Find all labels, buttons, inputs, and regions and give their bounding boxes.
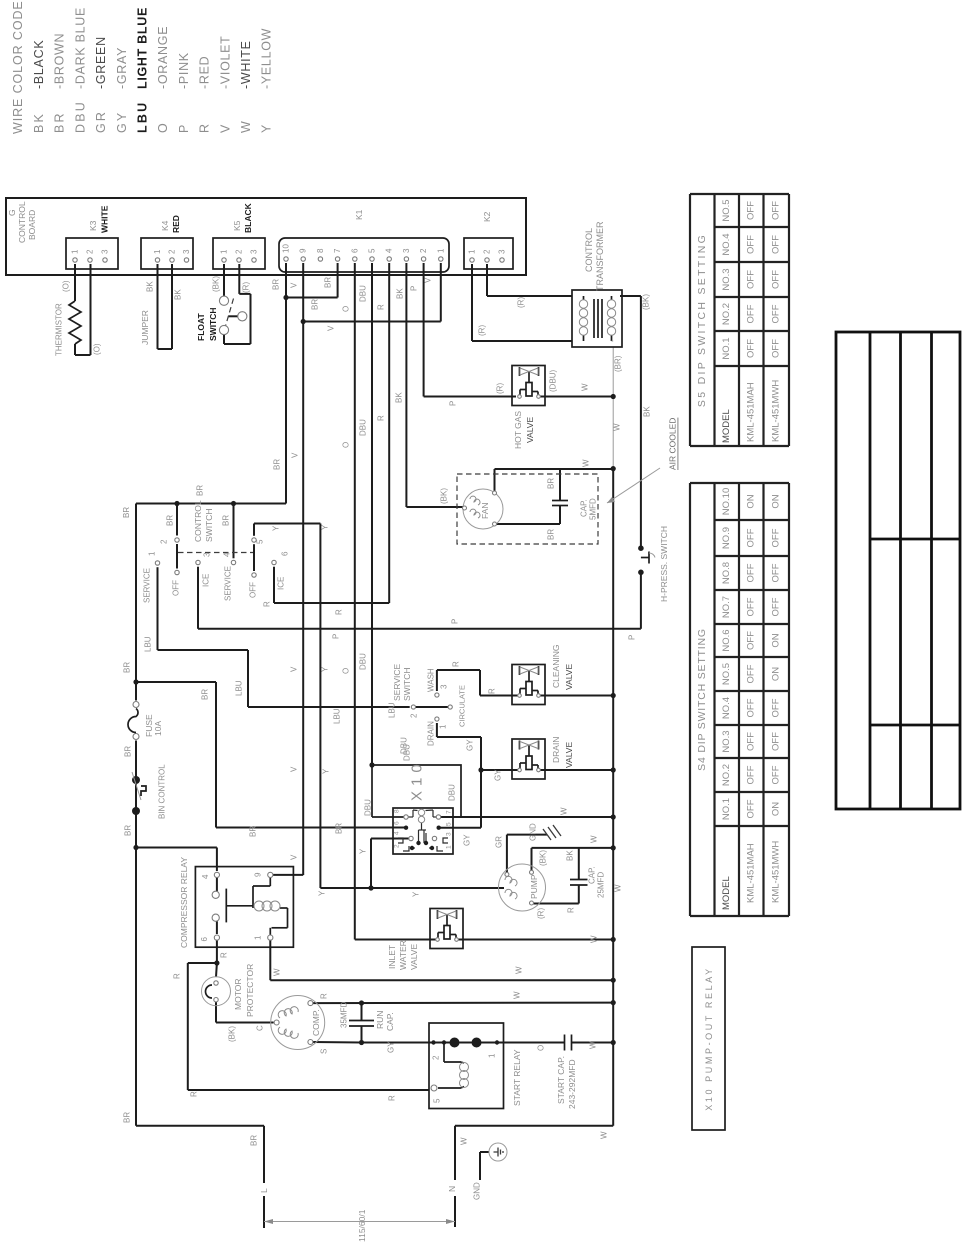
svg-text:1: 1 — [488, 1053, 497, 1058]
svg-text:5: 5 — [446, 822, 453, 826]
svg-text:Y: Y — [359, 848, 368, 854]
svg-text:PUMP: PUMP — [529, 874, 539, 899]
svg-text:SWITCH: SWITCH — [208, 307, 218, 341]
svg-text:(BK): (BK) — [440, 488, 449, 504]
svg-text:O: O — [342, 306, 351, 312]
svg-text:PROTECTOR: PROTECTOR — [245, 964, 255, 1017]
svg-text:LBU: LBU — [388, 702, 397, 718]
svg-text:V: V — [290, 854, 299, 860]
svg-text:VALVE: VALVE — [564, 742, 574, 768]
svg-text:DBU: DBU — [364, 799, 373, 816]
svg-text:-PINK: -PINK — [177, 52, 191, 89]
svg-text:BK: BK — [396, 288, 405, 299]
svg-text:3: 3 — [182, 249, 191, 254]
svg-text:OFF: OFF — [746, 597, 757, 616]
svg-text:DRAIN: DRAIN — [551, 737, 561, 763]
svg-text:BR: BR — [249, 826, 258, 837]
svg-text:5: 5 — [433, 1098, 442, 1103]
svg-text:JUMPER: JUMPER — [140, 310, 150, 345]
svg-text:Y: Y — [322, 768, 331, 774]
svg-text:VALVE: VALVE — [564, 664, 574, 690]
svg-text:O: O — [537, 1045, 546, 1051]
svg-text:K4: K4 — [160, 220, 170, 231]
svg-text:6: 6 — [200, 937, 209, 942]
svg-text:S4 DIP SWITCH SETTING: S4 DIP SWITCH SETTING — [696, 628, 708, 771]
svg-text:OFF: OFF — [172, 580, 181, 596]
svg-text:6: 6 — [281, 551, 290, 556]
svg-text:W: W — [590, 835, 599, 843]
svg-text:Y: Y — [260, 122, 274, 133]
svg-text:OFF: OFF — [746, 304, 757, 323]
svg-text:NO.9: NO.9 — [721, 527, 732, 549]
svg-text:1: 1 — [71, 249, 80, 254]
svg-text:SERVICE: SERVICE — [224, 566, 233, 601]
svg-text:(R): (R) — [478, 325, 487, 336]
svg-text:R: R — [377, 415, 386, 421]
svg-text:R: R — [263, 601, 272, 607]
svg-text:115/60/1: 115/60/1 — [357, 1209, 367, 1242]
svg-text:LIGHT BLUE: LIGHT BLUE — [136, 7, 150, 89]
svg-text:Y: Y — [272, 525, 281, 531]
svg-text:MODEL: MODEL — [721, 409, 732, 443]
svg-text:DBU: DBU — [359, 419, 368, 436]
svg-text:LBU: LBU — [136, 101, 150, 133]
svg-text:OFF: OFF — [746, 631, 757, 650]
svg-text:R: R — [190, 1091, 199, 1097]
svg-text:FAN: FAN — [480, 502, 490, 519]
svg-text:START CAP.: START CAP. — [556, 1056, 566, 1104]
svg-text:(R): (R) — [517, 297, 526, 308]
svg-text:BIN CONTROL: BIN CONTROL — [158, 764, 167, 819]
svg-text:2: 2 — [160, 539, 169, 544]
svg-text:R: R — [198, 122, 212, 133]
svg-text:BR: BR — [123, 662, 132, 673]
svg-text:S5 DIP SWITCH SETTING: S5 DIP SWITCH SETTING — [696, 233, 708, 407]
svg-text:V: V — [218, 122, 232, 133]
svg-text:OFF: OFF — [746, 698, 757, 717]
svg-text:W: W — [239, 119, 253, 133]
svg-text:2: 2 — [410, 713, 419, 718]
svg-text:6: 6 — [350, 248, 359, 253]
svg-text:LBU: LBU — [235, 680, 244, 696]
svg-text:K1: K1 — [354, 209, 364, 220]
svg-text:NO.2: NO.2 — [721, 303, 732, 325]
svg-text:COMP.: COMP. — [311, 1009, 321, 1036]
svg-text:W: W — [600, 1131, 609, 1139]
svg-text:NO.4: NO.4 — [721, 233, 732, 255]
svg-text:OFF: OFF — [771, 765, 782, 784]
svg-text:BK: BK — [32, 112, 46, 133]
svg-text:V: V — [290, 766, 299, 772]
svg-text:ON: ON — [771, 667, 782, 681]
svg-text:2: 2 — [235, 249, 244, 254]
svg-text:BR: BR — [201, 689, 210, 700]
svg-text:-BLACK: -BLACK — [32, 40, 46, 89]
svg-text:NO.1: NO.1 — [721, 337, 732, 359]
svg-text:1: 1 — [468, 249, 477, 254]
svg-text:G: G — [7, 209, 17, 216]
svg-text:-GREEN: -GREEN — [94, 36, 108, 89]
svg-text:VALVE: VALVE — [525, 417, 535, 443]
svg-text:W: W — [590, 935, 599, 943]
svg-text:MODEL: MODEL — [721, 876, 732, 910]
svg-text:NO.5: NO.5 — [721, 199, 732, 221]
svg-text:(BK): (BK) — [642, 294, 651, 310]
svg-text:R: R — [388, 1095, 397, 1101]
svg-text:BR: BR — [547, 529, 556, 540]
svg-text:NO.1: NO.1 — [721, 798, 732, 820]
svg-text:CONTROL: CONTROL — [193, 500, 203, 542]
svg-text:BR: BR — [123, 1112, 132, 1123]
svg-text:W: W — [513, 991, 522, 999]
svg-text:NO.10: NO.10 — [721, 488, 732, 515]
svg-text:-DARK BLUE: -DARK BLUE — [73, 7, 87, 89]
svg-text:DBU: DBU — [403, 744, 412, 761]
svg-text:W: W — [582, 459, 591, 467]
svg-text:ON: ON — [771, 802, 782, 816]
svg-text:10A: 10A — [153, 721, 163, 736]
svg-text:GY: GY — [115, 111, 129, 133]
svg-text:P: P — [332, 634, 341, 639]
svg-text:OFF: OFF — [771, 597, 782, 616]
svg-text:O: O — [342, 668, 351, 674]
svg-text:BR: BR — [272, 279, 281, 290]
svg-text:BR: BR — [311, 299, 320, 310]
svg-text:BK: BK — [174, 289, 183, 300]
svg-text:W: W — [560, 807, 569, 815]
svg-text:ON: ON — [771, 633, 782, 647]
svg-text:BR: BR — [324, 277, 333, 288]
svg-text:5: 5 — [256, 539, 265, 544]
svg-text:-GRAY: -GRAY — [115, 47, 129, 89]
svg-text:(BR): (BR) — [614, 355, 623, 372]
svg-text:1: 1 — [220, 249, 229, 254]
svg-text:LBU: LBU — [333, 708, 342, 724]
svg-text:KML-451MWH: KML-451MWH — [771, 841, 782, 903]
svg-text:BOARD: BOARD — [27, 210, 37, 240]
svg-text:P: P — [628, 635, 637, 640]
svg-text:ICE: ICE — [202, 574, 211, 587]
svg-text:GY: GY — [387, 1041, 396, 1053]
svg-text:OFF: OFF — [771, 201, 782, 220]
svg-text:R: R — [320, 993, 329, 999]
svg-text:N: N — [447, 1186, 457, 1192]
svg-text:2: 2 — [483, 249, 492, 254]
svg-text:5MFD: 5MFD — [589, 498, 598, 520]
svg-text:9: 9 — [254, 872, 263, 877]
svg-text:INLET: INLET — [387, 945, 397, 969]
svg-text:GND: GND — [529, 823, 538, 841]
svg-text:Y: Y — [412, 891, 421, 897]
svg-text:CAP.: CAP. — [588, 866, 597, 884]
svg-text:(DBU): (DBU) — [549, 369, 558, 392]
svg-text:8: 8 — [316, 248, 325, 253]
svg-text:LBU: LBU — [144, 636, 153, 652]
svg-text:K3: K3 — [88, 220, 98, 231]
svg-text:P: P — [177, 122, 191, 133]
svg-text:VALVE: VALVE — [409, 944, 419, 970]
svg-text:NO.5: NO.5 — [721, 663, 732, 685]
svg-text:H-PRESS. SWITCH: H-PRESS. SWITCH — [659, 526, 669, 602]
svg-text:RED: RED — [171, 215, 181, 233]
svg-text:BK: BK — [146, 281, 155, 292]
svg-text:BR: BR — [53, 111, 67, 133]
svg-text:OFF: OFF — [771, 732, 782, 751]
svg-text:S: S — [320, 1049, 329, 1054]
svg-text:V: V — [290, 666, 299, 672]
svg-text:5: 5 — [368, 248, 377, 253]
svg-text:SERVICE: SERVICE — [143, 568, 152, 603]
svg-text:NO.3: NO.3 — [721, 730, 732, 752]
svg-text:OFF: OFF — [746, 732, 757, 751]
svg-text:3: 3 — [250, 249, 259, 254]
svg-text:BR: BR — [250, 1135, 259, 1146]
svg-text:RUN: RUN — [375, 1011, 385, 1029]
svg-text:Y: Y — [321, 666, 330, 672]
svg-text:W: W — [614, 884, 623, 892]
svg-text:-ORANGE: -ORANGE — [156, 26, 170, 89]
svg-text:10: 10 — [282, 244, 291, 253]
svg-text:R: R — [452, 661, 461, 667]
svg-text:OFF: OFF — [771, 563, 782, 582]
svg-text:K5: K5 — [232, 220, 242, 231]
svg-text:2: 2 — [86, 249, 95, 254]
svg-text:W: W — [460, 1137, 469, 1145]
svg-text:(R): (R) — [496, 383, 505, 394]
svg-text:R: R — [220, 952, 229, 958]
svg-text:35MFD: 35MFD — [340, 1002, 349, 1028]
svg-text:OFF: OFF — [746, 339, 757, 358]
svg-text:-YELLOW: -YELLOW — [260, 28, 274, 89]
svg-text:SERVICE: SERVICE — [392, 664, 402, 701]
svg-text:P: P — [451, 619, 460, 624]
svg-text:NO.3: NO.3 — [721, 268, 732, 290]
svg-text:ICE: ICE — [277, 577, 286, 590]
svg-text:W: W — [589, 1041, 598, 1049]
svg-text:OFF: OFF — [746, 270, 757, 289]
svg-text:W: W — [515, 966, 524, 974]
svg-text:O: O — [342, 442, 351, 448]
svg-text:GY: GY — [494, 769, 503, 781]
svg-text:L: L — [259, 1188, 269, 1193]
svg-text:NO.8: NO.8 — [721, 562, 732, 584]
svg-text:P: P — [410, 286, 419, 291]
svg-text:25MFD: 25MFD — [597, 872, 606, 898]
svg-text:WHITE: WHITE — [100, 205, 110, 233]
svg-text:THERMISTOR: THERMISTOR — [55, 303, 64, 356]
svg-text:WATER: WATER — [398, 940, 408, 970]
svg-text:C: C — [256, 1025, 265, 1031]
svg-text:KML-451MWH: KML-451MWH — [771, 380, 782, 442]
svg-text:BLACK: BLACK — [243, 202, 253, 233]
svg-text:3: 3 — [440, 684, 449, 689]
svg-text:3: 3 — [203, 552, 212, 557]
svg-text:4: 4 — [385, 248, 394, 253]
svg-text:3: 3 — [101, 249, 110, 254]
svg-text:OFF: OFF — [771, 304, 782, 323]
svg-text:BK: BK — [566, 850, 575, 861]
svg-text:BR: BR — [222, 515, 231, 526]
svg-text:X10: X10 — [409, 759, 426, 801]
svg-text:SWITCH: SWITCH — [204, 508, 214, 542]
svg-text:3: 3 — [498, 249, 507, 254]
svg-text:CAP.: CAP. — [580, 499, 589, 517]
svg-text:R: R — [488, 688, 497, 694]
svg-text:O: O — [156, 121, 170, 133]
svg-text:AIR COOLED: AIR COOLED — [668, 418, 678, 470]
svg-text:1: 1 — [153, 249, 162, 254]
svg-text:OFF: OFF — [249, 582, 258, 598]
svg-text:-BROWN: -BROWN — [53, 33, 67, 89]
svg-text:P: P — [449, 401, 458, 406]
svg-text:KML-451MAH: KML-451MAH — [746, 843, 757, 903]
svg-text:OFF: OFF — [771, 698, 782, 717]
svg-text:OFF: OFF — [771, 339, 782, 358]
svg-text:4: 4 — [223, 552, 232, 557]
svg-text:DRAIN: DRAIN — [427, 721, 436, 746]
svg-text:WIRE COLOR CODE: WIRE COLOR CODE — [11, 0, 25, 134]
svg-text:8: 8 — [394, 809, 401, 813]
svg-text:R: R — [377, 304, 386, 310]
svg-text:FLOAT: FLOAT — [196, 312, 206, 341]
svg-text:BR: BR — [547, 478, 556, 489]
svg-text:W: W — [273, 968, 282, 976]
svg-text:BR: BR — [166, 515, 175, 526]
svg-text:1: 1 — [446, 845, 453, 849]
svg-text:OFF: OFF — [746, 528, 757, 547]
svg-text:GR: GR — [495, 836, 504, 848]
svg-text:ON: ON — [771, 494, 782, 508]
svg-text:COMPRESSOR RELAY: COMPRESSOR RELAY — [179, 857, 189, 948]
svg-text:CIRCULATE: CIRCULATE — [458, 685, 467, 727]
svg-text:4: 4 — [394, 831, 401, 835]
svg-text:GR: GR — [94, 110, 108, 133]
svg-text:CONTROL: CONTROL — [584, 228, 594, 272]
svg-text:9: 9 — [299, 248, 308, 253]
svg-text:CLEANING: CLEANING — [551, 645, 561, 688]
svg-text:BR: BR — [124, 746, 133, 757]
svg-text:Y: Y — [318, 890, 327, 896]
svg-text:OFF: OFF — [746, 235, 757, 254]
svg-text:6: 6 — [394, 821, 401, 825]
svg-text:(R): (R) — [537, 908, 546, 919]
svg-text:OFF: OFF — [771, 235, 782, 254]
svg-text:BR: BR — [335, 823, 344, 834]
svg-text:TRANSFORMER: TRANSFORMER — [595, 221, 605, 291]
svg-text:-VIOLET: -VIOLET — [218, 35, 232, 89]
svg-text:1: 1 — [436, 248, 445, 253]
svg-text:BR: BR — [124, 825, 133, 836]
svg-text:V: V — [327, 325, 336, 331]
svg-text:(O): (O) — [62, 280, 71, 292]
svg-text:W: W — [613, 423, 622, 431]
svg-text:2: 2 — [168, 249, 177, 254]
svg-text:BR: BR — [273, 459, 282, 470]
svg-text:1: 1 — [439, 724, 448, 729]
svg-text:START RELAY: START RELAY — [512, 1049, 522, 1106]
svg-text:NO.4: NO.4 — [721, 697, 732, 719]
svg-text:DBU: DBU — [448, 784, 457, 801]
svg-text:X10 PUMP-OUT RELAY: X10 PUMP-OUT RELAY — [704, 966, 714, 1111]
svg-text:OFF: OFF — [771, 270, 782, 289]
svg-text:BK: BK — [395, 392, 404, 403]
svg-text:OFF: OFF — [746, 765, 757, 784]
svg-text:CAP.: CAP. — [385, 1012, 395, 1031]
svg-text:4: 4 — [201, 874, 210, 879]
svg-text:2: 2 — [419, 248, 428, 253]
svg-text:(BK): (BK) — [212, 276, 221, 292]
svg-text:2: 2 — [432, 1055, 441, 1060]
svg-text:NO.7: NO.7 — [721, 596, 732, 618]
svg-text:BK: BK — [643, 406, 652, 417]
svg-text:(R): (R) — [242, 282, 251, 293]
svg-text:7: 7 — [333, 248, 342, 253]
svg-text:NO.2: NO.2 — [721, 764, 732, 786]
svg-text:R: R — [567, 907, 576, 913]
svg-text:DBU: DBU — [359, 653, 368, 670]
svg-text:Y: Y — [321, 524, 330, 530]
svg-text:7: 7 — [446, 810, 453, 814]
svg-text:V: V — [291, 452, 300, 458]
svg-text:GY: GY — [466, 739, 475, 751]
svg-text:(BK): (BK) — [228, 1026, 237, 1042]
svg-text:OFF: OFF — [746, 563, 757, 582]
svg-text:-WHITE: -WHITE — [239, 40, 253, 89]
svg-text:R: R — [173, 973, 182, 979]
svg-text:NO.6: NO.6 — [721, 629, 732, 651]
svg-text:V: V — [290, 282, 299, 288]
svg-text:WASH: WASH — [427, 668, 436, 692]
svg-text:1: 1 — [254, 935, 263, 940]
svg-text:GND: GND — [473, 1182, 482, 1200]
svg-text:DBU: DBU — [359, 285, 368, 302]
svg-text:MOTOR: MOTOR — [233, 979, 243, 1010]
svg-text:DBU: DBU — [73, 100, 87, 133]
svg-text:243-292MFD: 243-292MFD — [567, 1059, 577, 1109]
svg-text:K2: K2 — [482, 211, 492, 222]
svg-text:ON: ON — [746, 494, 757, 508]
svg-text:3: 3 — [446, 832, 453, 836]
svg-text:KML-451MAH: KML-451MAH — [746, 382, 757, 442]
svg-text:OFF: OFF — [746, 664, 757, 683]
svg-text:CONTROL: CONTROL — [17, 201, 27, 243]
svg-text:SWITCH: SWITCH — [402, 667, 412, 701]
svg-text:1: 1 — [148, 551, 157, 556]
svg-text:GY: GY — [463, 834, 472, 846]
svg-text:V: V — [424, 277, 433, 283]
svg-text:-RED: -RED — [198, 56, 212, 89]
svg-text:(BK): (BK) — [539, 850, 548, 866]
svg-text:BR: BR — [196, 485, 205, 496]
svg-text:BR: BR — [122, 507, 131, 518]
svg-text:3: 3 — [402, 248, 411, 253]
svg-text:2: 2 — [394, 844, 401, 848]
svg-text:OFF: OFF — [746, 201, 757, 220]
svg-text:OFF: OFF — [746, 799, 757, 818]
svg-text:R: R — [335, 609, 344, 615]
svg-text:OFF: OFF — [771, 528, 782, 547]
svg-text:(O): (O) — [93, 343, 102, 355]
svg-text:W: W — [581, 383, 590, 391]
svg-text:HOT GAS: HOT GAS — [513, 411, 523, 449]
